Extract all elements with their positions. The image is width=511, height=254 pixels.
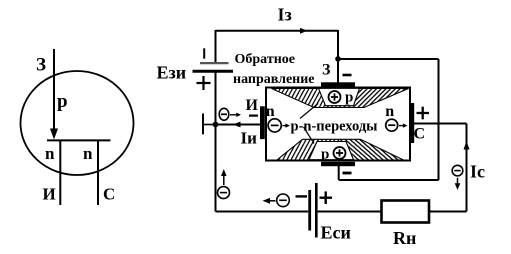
wire: Eси to resistor Rн <box>318 211 382 213</box>
current arrow Iз on top wire <box>300 28 308 34</box>
svg-text:n: n <box>266 103 275 120</box>
plus-in-circle top <box>329 91 341 103</box>
electron symbol (minus in circle) above node <box>219 108 229 120</box>
battery Eси long (positive) plate <box>315 183 318 238</box>
svg-text:С: С <box>414 126 426 143</box>
svg-text:Iи: Iи <box>241 129 258 148</box>
svg-text:З: З <box>36 55 46 76</box>
electron flow arrow toward Eси (left) <box>263 198 276 204</box>
current arrow Iи (pointing left on wire) <box>233 122 241 128</box>
wire: from top wire down to battery Eзи <box>215 30 217 62</box>
svg-text:p: p <box>57 91 68 112</box>
electrode С (right, black bar) <box>410 103 414 143</box>
terminal tick at node <box>202 114 204 135</box>
svg-text:И: И <box>246 97 259 114</box>
battery Eси minus sign <box>296 195 308 197</box>
wire: resistor to right riser <box>429 211 467 213</box>
svg-text:р-n-переходы: р-n-переходы <box>291 119 378 135</box>
electron symbol on left branch <box>218 187 230 199</box>
wire: node to source electrode И <box>216 124 261 126</box>
minus sign under И <box>249 114 258 116</box>
p-region bottom (hatched depletion) <box>277 139 339 160</box>
battery Eзи short (negative) plate <box>200 62 229 64</box>
wire: bottom (left part to Eси) <box>216 211 309 213</box>
svg-text:Iз: Iз <box>278 5 292 25</box>
wire: top gate loop horizontal <box>216 30 339 32</box>
svg-text:Ези: Ези <box>157 63 187 83</box>
electrode И (left, black bar) <box>260 106 265 139</box>
wire: bottom electrode stub <box>338 166 340 180</box>
pointer line to bottom p-n junction <box>304 127 315 144</box>
minus sign at bottom gate <box>343 172 352 175</box>
svg-text:n: n <box>385 103 394 120</box>
electron symbol on drain branch <box>452 165 463 176</box>
svg-text:И: И <box>43 185 56 204</box>
wire: gate stub (top wire to З electrode) <box>337 30 339 83</box>
svg-text:направление: направление <box>233 72 315 87</box>
battery Eзи long (positive) plate <box>193 70 234 73</box>
resistor Rн <box>382 201 430 223</box>
electrode З (top, black bar) <box>321 82 355 86</box>
plus sign at С <box>417 107 430 120</box>
battery Eзи minus tick <box>203 48 205 58</box>
electron flow arrow down on drain branch <box>455 178 461 190</box>
minus sign at З <box>343 74 352 77</box>
wire: terminal tick to node <box>203 124 216 126</box>
VT gate lead with arrow (p) <box>50 49 58 140</box>
electron arrow in channel (right) <box>399 123 408 127</box>
svg-text:р: р <box>345 90 353 106</box>
wire: gate loop right vertical <box>438 59 440 180</box>
node: junction at source branch <box>213 122 219 128</box>
p+ zone top (white window) <box>319 88 360 105</box>
svg-text:Еси: Еси <box>321 223 351 243</box>
svg-text:n: n <box>83 144 93 163</box>
electron flow arrow up on left branch <box>221 169 227 185</box>
wire: left branch vertical (Eзи to bottom wire) <box>215 71 217 211</box>
electron arrow in channel (left) <box>283 123 291 127</box>
wire: drain electrode С to riser <box>414 123 467 125</box>
transistor VT symbol: body circle <box>21 71 134 175</box>
svg-text:n: n <box>45 144 55 163</box>
battery Eси plus sign <box>320 191 333 204</box>
p+ zone bottom (white window) <box>309 142 354 160</box>
wire: gate loop bottom horizontal <box>339 179 439 181</box>
svg-text:Rн: Rн <box>393 228 416 248</box>
plus-in-circle bottom <box>334 147 346 159</box>
p-region top (hatched depletion) <box>272 89 340 108</box>
VT drain lead <box>97 140 99 205</box>
electron symbol in channel (right) <box>386 119 398 131</box>
svg-text:С: С <box>103 185 115 204</box>
current arrow Iс up on riser <box>464 141 470 150</box>
electron flow arrow toward И <box>230 113 241 117</box>
svg-text:р: р <box>321 147 329 163</box>
svg-text:З: З <box>322 62 331 79</box>
pointer line to top p-n junction <box>300 104 318 119</box>
electron symbol near Eси <box>277 194 290 207</box>
VT channel bar <box>47 139 111 141</box>
svg-text:Обратное: Обратное <box>235 52 295 67</box>
svg-text:Iс: Iс <box>470 162 485 182</box>
node: junction on gate stub <box>335 56 341 62</box>
battery Eси short (negative) plate <box>308 190 311 231</box>
wire: gate loop top horizontal to right <box>338 58 439 60</box>
VT source lead <box>59 140 61 205</box>
wire: right riser (drain branch) <box>466 124 468 212</box>
battery Eзи plus sign <box>197 76 211 90</box>
transistor body (n crystal) <box>266 88 410 161</box>
electrode bottom gate (black bar) <box>321 162 355 166</box>
electron symbol in channel (left) <box>268 119 281 132</box>
